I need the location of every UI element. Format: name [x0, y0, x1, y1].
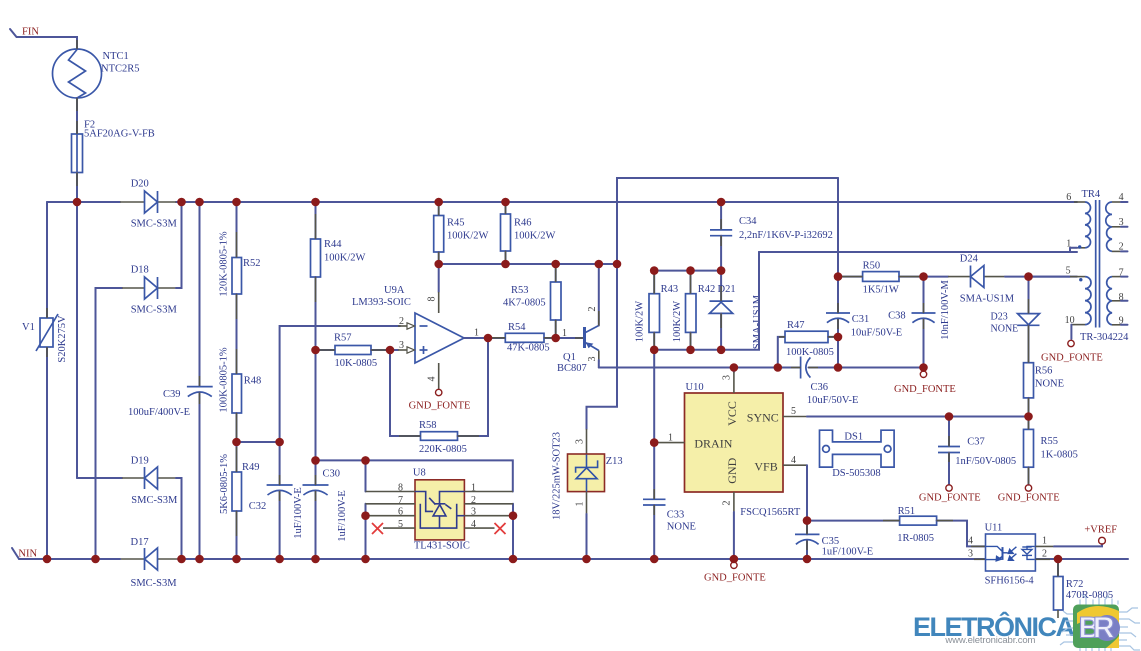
svg-text:www.eletronicabr.com: www.eletronicabr.com [944, 635, 1035, 646]
wire FIN column to D19 [76, 202, 78, 478]
wire TR4 pin1 [759, 251, 1077, 253]
wire F2 to top rail [76, 173, 78, 203]
svg-text:1K-0805: 1K-0805 [1041, 450, 1078, 461]
svg-text:C36: C36 [811, 382, 829, 393]
U8 pin 6 [366, 515, 416, 517]
wire top rail [47, 201, 120, 203]
wire NTC to F2 [76, 98, 78, 134]
svg-text:R45: R45 [447, 218, 465, 229]
capacitor C37 [948, 417, 950, 447]
svg-text:4K7-0805: 4K7-0805 [503, 298, 546, 309]
svg-text:R50: R50 [863, 260, 881, 271]
op-amp pin 4 + GND_FONTE [438, 363, 440, 389]
svg-text:10nF/100V-M: 10nF/100V-M [940, 279, 951, 339]
U8 pin 5 no-connect [383, 527, 415, 529]
wire op-amp pin2 net [280, 326, 400, 442]
svg-text:2: 2 [587, 307, 598, 312]
capacitor C36 [800, 357, 802, 379]
svg-text:GND_FONTE: GND_FONTE [704, 573, 766, 584]
svg-text:DS1: DS1 [844, 431, 863, 442]
svg-text:C33: C33 [667, 509, 685, 520]
diode D17 [120, 558, 145, 560]
svg-text:FIN: FIN [22, 27, 39, 38]
svg-text:1: 1 [574, 502, 585, 507]
svg-text:C37: C37 [967, 437, 985, 448]
svg-text:NTC2R5: NTC2R5 [101, 63, 140, 74]
capacitor C35 [806, 521, 808, 535]
svg-text:3: 3 [399, 340, 404, 351]
U10 pin 5 SYNC [783, 416, 807, 418]
svg-text:5: 5 [398, 519, 403, 530]
svg-text:R44: R44 [324, 239, 342, 250]
svg-text:R49: R49 [242, 462, 260, 473]
svg-text:100K/2W: 100K/2W [514, 231, 556, 242]
resistor R56 [1028, 325, 1030, 362]
U8 TL431 inner symbol [415, 492, 464, 529]
svg-text:C30: C30 [323, 469, 341, 480]
resistor R53 [555, 264, 557, 282]
diode D20 [145, 191, 158, 213]
svg-text:D17: D17 [131, 537, 149, 548]
U11 pin 2 [1035, 558, 1050, 560]
svg-text:R54: R54 [508, 322, 526, 333]
svg-text:SMC-S3M: SMC-S3M [131, 219, 178, 230]
svg-text:R53: R53 [511, 285, 529, 296]
svg-text:4: 4 [1119, 192, 1124, 203]
svg-text:7: 7 [398, 495, 403, 506]
svg-text:100K-0805-1%: 100K-0805-1% [219, 347, 230, 413]
svg-text:10uF/50V-E: 10uF/50V-E [807, 395, 859, 406]
svg-text:SMA-US1M: SMA-US1M [752, 294, 763, 349]
svg-text:120K-0805-1%: 120K-0805-1% [219, 231, 230, 297]
svg-text:2: 2 [1042, 549, 1047, 560]
svg-text:U9A: U9A [384, 285, 405, 296]
svg-text:1R-0805: 1R-0805 [897, 533, 934, 544]
U8 pin 8 [366, 491, 416, 493]
U10 pin 2 GND [733, 492, 735, 512]
svg-text:V1: V1 [22, 322, 35, 333]
resistor R47 [778, 337, 785, 368]
resistor R57 [316, 349, 336, 351]
U11 pin 1 to +VREF [1035, 545, 1054, 547]
component pin leads [47, 40, 1058, 577]
svg-text:U8: U8 [413, 468, 426, 479]
op-amp pin 8 [438, 264, 440, 292]
svg-text:1: 1 [471, 483, 476, 494]
transistor Q1 BC807 [583, 327, 586, 348]
svg-text:TR4: TR4 [1082, 189, 1101, 200]
svg-text:6: 6 [398, 507, 403, 518]
op-amp pin 3 arrow [398, 349, 407, 351]
svg-text:7: 7 [1119, 267, 1124, 278]
svg-text:1: 1 [474, 328, 479, 339]
capacitor C38 [923, 277, 925, 313]
diode D20 pins [120, 201, 145, 203]
svg-text:3: 3 [471, 507, 476, 518]
U8 pin 7 [366, 503, 416, 505]
svg-text:3: 3 [574, 439, 585, 444]
svg-text:GND: GND [725, 457, 739, 483]
svg-text:3: 3 [587, 357, 598, 362]
TR4 core [1095, 200, 1097, 328]
wire R48-C32 node [237, 441, 280, 443]
svg-text:5AF20AG-V-FB: 5AF20AG-V-FB [84, 128, 155, 139]
wire x617 to top [617, 178, 838, 264]
svg-text:NONE: NONE [1035, 378, 1064, 389]
U8 pin 2 [464, 503, 513, 505]
svg-text:6: 6 [1066, 192, 1071, 203]
svg-text:U11: U11 [985, 523, 1003, 534]
op-amp output pin 1 [464, 337, 505, 339]
svg-text:TL431-SOIC: TL431-SOIC [414, 541, 470, 552]
svg-text:DRAIN: DRAIN [694, 437, 732, 451]
U8 TL431-SOIC [365, 460, 367, 491]
wire snubber bottom node [654, 252, 759, 350]
U10 pin 1 DRAIN [654, 442, 684, 444]
svg-text:R42: R42 [698, 284, 716, 295]
wire snubber top node [654, 270, 721, 272]
resistor R52 [236, 202, 238, 258]
svg-text:GND_FONTE: GND_FONTE [1041, 353, 1103, 364]
svg-text:5K6-0805-1%: 5K6-0805-1% [219, 454, 230, 514]
U8 pin 3 [464, 515, 513, 517]
svg-text:R55: R55 [1041, 436, 1059, 447]
svg-text:D24: D24 [960, 253, 979, 264]
svg-text:2: 2 [1119, 242, 1124, 253]
diode D21 [720, 271, 722, 302]
capacitor C32 [279, 442, 281, 485]
wire U8 top net [316, 460, 513, 491]
svg-text:S20K275V: S20K275V [57, 315, 68, 363]
svg-text:4: 4 [968, 536, 973, 547]
svg-text:4: 4 [791, 455, 796, 466]
svg-text:TR-304224: TR-304224 [1080, 332, 1129, 343]
svg-text:VCC: VCC [725, 401, 739, 426]
svg-text:8: 8 [1119, 292, 1124, 303]
svg-text:U10: U10 [686, 382, 704, 393]
svg-text:BR: BR [1079, 612, 1115, 645]
svg-text:4: 4 [427, 377, 438, 382]
op-amp pin 2 arrow [398, 325, 407, 327]
svg-text:GND_FONTE: GND_FONTE [919, 492, 981, 503]
svg-text:R51: R51 [898, 506, 916, 517]
svg-text:9: 9 [1119, 316, 1124, 327]
svg-text:NONE: NONE [991, 323, 1019, 334]
svg-text:47K-0805: 47K-0805 [507, 342, 550, 353]
wire drain column [653, 350, 655, 443]
svg-text:1: 1 [1066, 239, 1071, 250]
svg-text:R47: R47 [787, 320, 805, 331]
svg-text:100K/2W: 100K/2W [447, 231, 489, 242]
resistor R72 [1057, 559, 1059, 577]
NTC1 thermistor [53, 49, 102, 98]
TR4 winding 4-3-2 [1106, 202, 1112, 251]
svg-text:5: 5 [1066, 266, 1071, 277]
varistor V1 [46, 202, 48, 318]
svg-text:1uF/100V-E: 1uF/100V-E [337, 490, 348, 542]
ground GND_FONTE TR4 pin10 [1070, 325, 1072, 339]
svg-text:D20: D20 [131, 179, 149, 190]
svg-text:NIN: NIN [18, 549, 37, 560]
capacitor C39 [199, 202, 201, 386]
svg-text:8: 8 [398, 483, 403, 494]
svg-text:D23: D23 [991, 312, 1008, 323]
svg-text:2: 2 [722, 501, 733, 506]
svg-text:2: 2 [399, 316, 404, 327]
svg-text:FSCQ1565RT: FSCQ1565RT [740, 507, 801, 518]
svg-text:R46: R46 [514, 218, 532, 229]
resistor R54 [505, 333, 544, 342]
svg-text:D21: D21 [718, 284, 736, 295]
svg-text:R48: R48 [244, 376, 262, 387]
U10 pin 3 VCC [733, 368, 735, 373]
svg-text:R56: R56 [1035, 366, 1053, 377]
svg-text:4: 4 [471, 519, 476, 530]
resistor R43 [653, 271, 655, 294]
svg-text:C34: C34 [739, 216, 757, 227]
svg-text:100K/2W: 100K/2W [635, 301, 646, 343]
svg-text:GND_FONTE: GND_FONTE [998, 492, 1060, 503]
TR4 winding 7-8-9 [1107, 277, 1112, 325]
svg-text:NONE: NONE [667, 521, 696, 532]
svg-text:R52: R52 [243, 258, 261, 269]
ground GND_FONTE C38 [923, 368, 925, 372]
IC U10 FSCQ1565RT [685, 393, 784, 492]
U8 pin 1 [464, 491, 512, 493]
wire Q1 emitter rail [599, 367, 800, 369]
wire bottom bus [19, 558, 120, 560]
svg-text:C38: C38 [888, 310, 906, 321]
svg-text:1: 1 [562, 328, 567, 339]
resistor R50 [838, 276, 863, 278]
svg-text:10K-0805: 10K-0805 [335, 358, 378, 369]
svg-text:100K/2W: 100K/2W [324, 253, 366, 264]
diode D18 [96, 288, 123, 559]
svg-text:R72: R72 [1066, 579, 1084, 590]
svg-text:R58: R58 [419, 420, 437, 431]
svg-text:Z13: Z13 [606, 456, 623, 467]
svg-text:2: 2 [471, 495, 476, 506]
svg-text:10: 10 [1065, 315, 1075, 326]
svg-text:5: 5 [791, 406, 796, 417]
svg-text:2,2nF/1K6V-P-i32692: 2,2nF/1K6V-P-i32692 [739, 230, 833, 241]
diode D19 [77, 477, 122, 479]
svg-text:10uF/50V-E: 10uF/50V-E [851, 327, 903, 338]
U10 pin 4 VFB [783, 464, 807, 466]
net NIN [12, 548, 19, 559]
svg-text:+VREF: +VREF [1084, 525, 1117, 536]
svg-text:1nF/50V-0805: 1nF/50V-0805 [955, 456, 1016, 467]
capacitor C30 [315, 460, 317, 485]
wire C31 column [837, 178, 839, 313]
resistor R45 [438, 202, 440, 216]
svg-text:SMC-S3M: SMC-S3M [131, 578, 178, 589]
op-amp U9A [415, 313, 464, 363]
optocoupler U11 SFH6156-4 [986, 534, 1036, 571]
svg-text:BC807: BC807 [557, 363, 587, 374]
resistor R48 [236, 294, 238, 374]
svg-text:VFB: VFB [754, 459, 777, 473]
svg-text:SYNC: SYNC [747, 410, 779, 424]
U8 pin 4 no-connect [464, 527, 494, 529]
svg-text:R43: R43 [661, 284, 679, 295]
svg-text:DS-505308: DS-505308 [832, 468, 880, 479]
svg-text:8: 8 [427, 297, 438, 302]
svg-text:SMC-S3M: SMC-S3M [131, 495, 178, 506]
svg-text:3: 3 [722, 375, 733, 380]
svg-text:1uF/100V-E: 1uF/100V-E [293, 487, 304, 539]
svg-text:220K-0805: 220K-0805 [419, 444, 467, 455]
capacitor C33 [653, 443, 655, 499]
svg-text:SMC-S3M: SMC-S3M [131, 305, 178, 316]
diode D23 [1028, 277, 1030, 314]
svg-text:100K-0805: 100K-0805 [786, 347, 834, 358]
svg-text:100uF/400V-E: 100uF/400V-E [128, 407, 190, 418]
svg-text:GND_FONTE: GND_FONTE [894, 384, 956, 395]
svg-text:R57: R57 [334, 333, 352, 344]
resistor R51 [807, 520, 900, 522]
resistor R42 [690, 271, 692, 294]
svg-text:1: 1 [668, 432, 673, 443]
TR4 winding 6-1 [1074, 201, 1085, 203]
svg-text:1K5/1W: 1K5/1W [863, 285, 899, 296]
svg-text:C39: C39 [163, 389, 181, 400]
svg-text:Q1: Q1 [563, 352, 576, 363]
wire rail V+ [439, 263, 617, 265]
svg-text:C31: C31 [852, 314, 870, 325]
resonator DS1 [820, 430, 895, 467]
svg-text:SMA-US1M: SMA-US1M [960, 293, 1015, 304]
resistor R49 [236, 413, 238, 472]
svg-text:3: 3 [968, 549, 973, 560]
diode D24 [948, 276, 971, 278]
svg-text:100K/2W: 100K/2W [672, 301, 683, 343]
svg-text:D19: D19 [131, 456, 149, 467]
net FIN [10, 29, 77, 49]
TR4 winding 5-10 [1029, 276, 1071, 278]
svg-text:NTC1: NTC1 [103, 51, 129, 62]
svg-text:470R-0805: 470R-0805 [1066, 590, 1113, 601]
svg-text:SFH6156-4: SFH6156-4 [985, 575, 1035, 586]
resistor R55 [1028, 417, 1030, 430]
svg-text:1uF/100V-E: 1uF/100V-E [822, 547, 874, 558]
ground GND_FONTE U10 [731, 562, 737, 568]
capacitor C31 [826, 312, 850, 314]
resistor R44 [315, 202, 317, 239]
svg-text:3: 3 [1119, 217, 1124, 228]
capacitor C34 [720, 202, 722, 230]
zener Z13 [587, 264, 618, 429]
svg-text:1: 1 [1042, 536, 1047, 547]
resistor R46 [505, 202, 507, 214]
svg-text:LM393-SOIC: LM393-SOIC [352, 297, 411, 308]
svg-text:D18: D18 [131, 265, 149, 276]
svg-text:18V/225mW-SOT23: 18V/225mW-SOT23 [552, 432, 563, 520]
fuse F2 [72, 134, 83, 173]
svg-text:GND_FONTE: GND_FONTE [409, 401, 471, 412]
svg-text:C32: C32 [249, 501, 267, 512]
resistor R58 feedback loop [390, 350, 421, 436]
